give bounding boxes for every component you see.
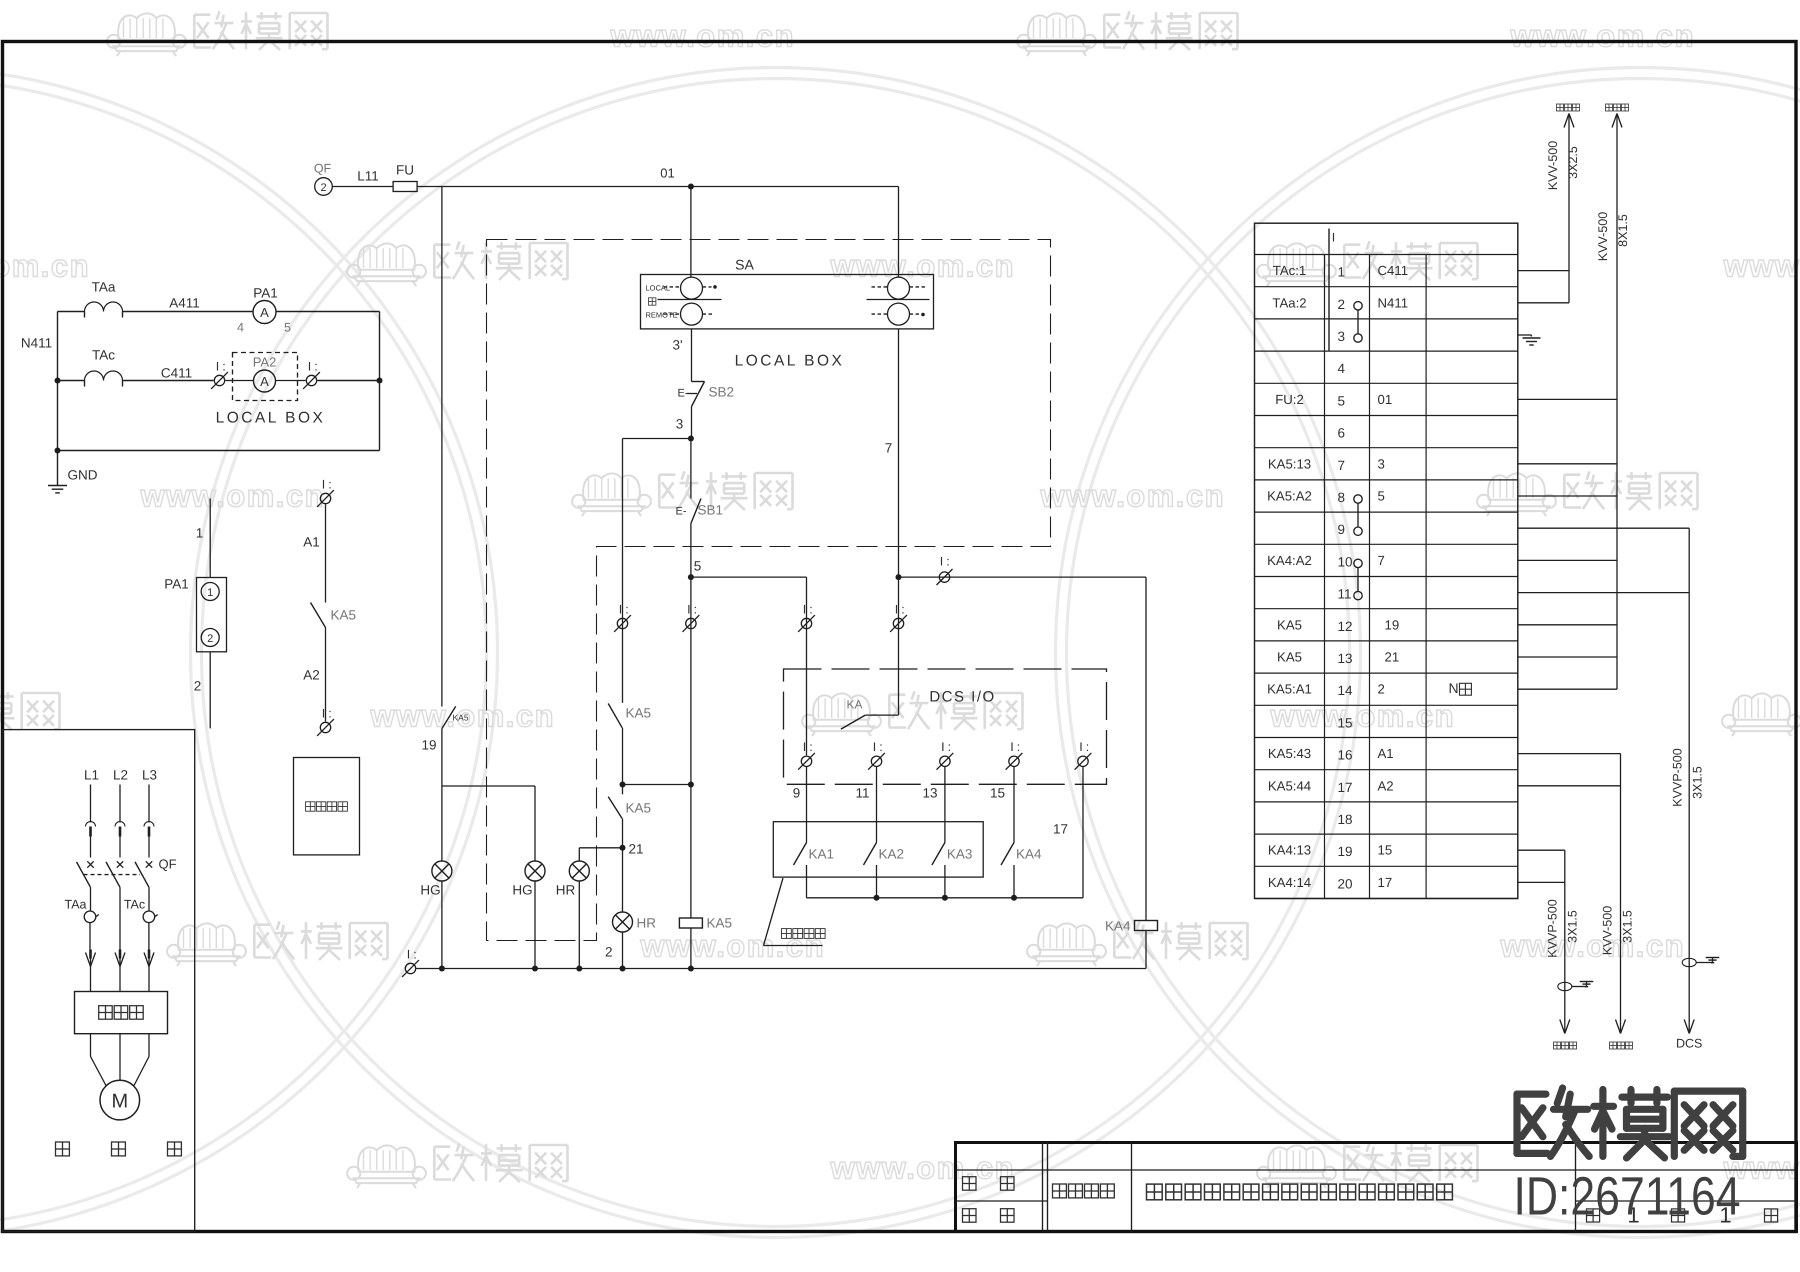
- svg-text:3: 3: [676, 417, 684, 432]
- svg-text:2: 2: [320, 182, 326, 194]
- svg-text:LOCAL BOX: LOCAL BOX: [216, 410, 326, 427]
- svg-text:6: 6: [1338, 426, 1346, 441]
- title block drawing-name: [1053, 1184, 1115, 1198]
- svg-text:I: I: [308, 359, 311, 373]
- svg-text:I: I: [1079, 740, 1082, 754]
- title block frame: [956, 1143, 1797, 1232]
- terminal symbol: [1006, 740, 1023, 770]
- svg-text:8: 8: [1338, 490, 1346, 505]
- svg-text::: :: [328, 477, 331, 491]
- svg-text:QF: QF: [159, 857, 177, 872]
- svg-text::: :: [694, 602, 697, 616]
- wire node 3p: [672, 329, 691, 382]
- svg-text:4: 4: [237, 321, 244, 335]
- svg-text:KA5: KA5: [1277, 617, 1302, 632]
- svg-text::: :: [413, 947, 416, 961]
- svg-text:TAa: TAa: [65, 898, 87, 912]
- terminal symbol: [937, 740, 954, 770]
- svg-text:20: 20: [1338, 876, 1353, 891]
- svg-text:4: 4: [1338, 361, 1346, 376]
- terminal symbol: [317, 706, 334, 736]
- motor M: [100, 1080, 140, 1120]
- svg-text:www.om.cn: www.om.cn: [830, 249, 1016, 284]
- svg-text:KVVP-500: KVVP-500: [1671, 748, 1685, 806]
- svg-text:19: 19: [1385, 617, 1400, 632]
- label LOCAL BOX: [216, 410, 326, 427]
- wire terminal 2: [194, 652, 210, 729]
- rail junctions: [439, 966, 694, 972]
- contact KA5: [311, 603, 357, 628]
- terminal strip table: [1255, 223, 1518, 898]
- CT TAc main: [124, 898, 158, 950]
- svg-text:KA5:43: KA5:43: [1268, 746, 1311, 761]
- wire coil to rail: [690, 928, 692, 969]
- lamp HR1: [556, 861, 590, 898]
- svg-text:www.om.cn: www.om.cn: [1723, 249, 1800, 284]
- svg-text:3: 3: [1378, 456, 1385, 471]
- cable KVV-500 3X1.5 to inverter cabinet: [1518, 754, 1635, 1049]
- svg-text:3X2.5: 3X2.5: [1566, 146, 1580, 179]
- svg-text:TAa:2: TAa:2: [1272, 295, 1306, 310]
- svg-text:KA4:13: KA4:13: [1268, 843, 1311, 858]
- svg-text:19: 19: [421, 738, 436, 753]
- svg-text:15: 15: [1378, 843, 1393, 858]
- svg-text:TAc: TAc: [124, 898, 145, 912]
- svg-text:2: 2: [605, 945, 613, 960]
- contact KA1: [794, 767, 835, 898]
- svg-text:KA5: KA5: [331, 608, 357, 623]
- CT TAa main: [65, 898, 99, 950]
- svg-text:TAc:1: TAc:1: [1273, 263, 1306, 278]
- svg-text:I: I: [1010, 740, 1013, 754]
- svg-text:KA4:14: KA4:14: [1268, 875, 1311, 890]
- svg-text:I: I: [803, 740, 806, 754]
- svg-text:KA4: KA4: [1016, 847, 1042, 862]
- pushbutton SB1: [676, 499, 724, 524]
- svg-text:L1: L1: [84, 768, 99, 783]
- svg-text:KVV-500: KVV-500: [1601, 906, 1615, 955]
- svg-text:PA1: PA1: [253, 286, 278, 301]
- contact KA: [841, 698, 899, 730]
- svg-text:I: I: [619, 602, 622, 616]
- svg-text:KA5: KA5: [1277, 650, 1302, 665]
- labels L1 L2 L3: [84, 768, 157, 783]
- svg-text:www.om.cn: www.om.cn: [140, 479, 326, 514]
- svg-text:17: 17: [1338, 780, 1353, 795]
- svg-text:7: 7: [885, 441, 893, 456]
- svg-text:TAc: TAc: [92, 348, 115, 363]
- svg-text:A2: A2: [1378, 778, 1394, 793]
- wire branch 19: [441, 187, 443, 707]
- ammeter PA1: [237, 286, 291, 335]
- svg-text:18: 18: [1338, 812, 1353, 827]
- label N411: [21, 336, 52, 351]
- relay contacts box: [773, 822, 983, 877]
- svg-text:I: I: [1332, 231, 1335, 245]
- svg-text:KA5: KA5: [626, 706, 652, 721]
- title text: [1147, 1184, 1453, 1200]
- svg-text:15: 15: [1338, 715, 1353, 730]
- svg-text::: :: [222, 359, 225, 373]
- svg-text:N411: N411: [1378, 295, 1409, 310]
- svg-text:QF: QF: [314, 162, 332, 176]
- svg-text:1: 1: [1338, 265, 1346, 280]
- svg-text:I: I: [322, 706, 325, 720]
- cable KVVP-500 3X1.5 to inverter cabinet: [1518, 850, 1594, 1049]
- svg-text:KA5: KA5: [626, 801, 652, 816]
- svg-text:www.om.cn: www.om.cn: [1500, 929, 1686, 964]
- svg-text:1: 1: [196, 526, 204, 541]
- svg-text:11: 11: [1338, 587, 1352, 602]
- svg-text:FU:2: FU:2: [1275, 392, 1304, 407]
- svg-text:KA5:A1: KA5:A1: [1267, 682, 1312, 697]
- svg-text:2: 2: [207, 633, 213, 645]
- label A411: [169, 296, 200, 311]
- svg-text:5: 5: [1338, 393, 1346, 408]
- jumper links: [1354, 302, 1362, 600]
- selector switch SA: [641, 257, 934, 329]
- svg-text::: :: [314, 359, 317, 373]
- wire B top: [899, 576, 1147, 578]
- svg-text:12: 12: [1338, 619, 1353, 634]
- wire mid: [620, 728, 626, 795]
- svg-text:SB2: SB2: [709, 385, 735, 400]
- svg-text:I: I: [940, 555, 943, 569]
- svg-text:13: 13: [1338, 651, 1353, 666]
- svg-text:L3: L3: [142, 768, 157, 783]
- svg-text:11: 11: [855, 786, 869, 801]
- wire 3 branch down: [622, 439, 624, 703]
- svg-text:www.om.cn: www.om.cn: [0, 249, 90, 284]
- svg-text:I: I: [216, 359, 219, 373]
- svg-text:13: 13: [922, 786, 937, 801]
- svg-text:www.om.cn: www.om.cn: [1510, 19, 1696, 54]
- svg-text:3X1.5: 3X1.5: [1621, 910, 1635, 943]
- svg-text::: :: [901, 602, 904, 616]
- meter PA2 dashed box: [233, 353, 298, 401]
- wire terminal 1: [196, 499, 210, 578]
- wire HR1 to rail: [578, 881, 580, 969]
- note from-inverter: [764, 878, 826, 946]
- inverter box: [75, 992, 168, 1034]
- wire N411 loop: [58, 312, 380, 451]
- svg-text:21: 21: [1385, 650, 1400, 665]
- svg-text:KA5:13: KA5:13: [1268, 456, 1311, 471]
- wire KA4 coil to rail: [1145, 931, 1147, 969]
- label main loop: [56, 1142, 182, 1156]
- wire contact bus: [807, 895, 1084, 901]
- svg-text:DCS I/O: DCS I/O: [929, 689, 995, 706]
- svg-text:17: 17: [1053, 822, 1068, 837]
- svg-text:5: 5: [1378, 489, 1385, 504]
- wire to lamps: [442, 729, 535, 861]
- svg-text:I: I: [687, 602, 690, 616]
- svg-text:E-: E-: [678, 388, 689, 400]
- svg-text:GND: GND: [68, 468, 98, 483]
- wire node 2: [605, 932, 623, 969]
- svg-text:HR: HR: [556, 883, 576, 898]
- svg-text:HR: HR: [637, 916, 657, 931]
- svg-text:1: 1: [207, 587, 213, 599]
- svg-text:KA5: KA5: [707, 916, 733, 931]
- wire node 5: [688, 524, 701, 581]
- svg-text:KVV-500: KVV-500: [1596, 212, 1610, 261]
- svg-text:L2: L2: [113, 768, 128, 783]
- wire 3 to KA5 branch: [623, 438, 691, 440]
- ground of shield row3: [1518, 335, 1541, 345]
- svg-text:5: 5: [284, 321, 291, 335]
- wire 01 bus: [417, 166, 898, 190]
- svg-text:KA5:44: KA5:44: [1268, 778, 1311, 793]
- svg-text:DCS: DCS: [1676, 1037, 1702, 1051]
- page numbers: [1587, 1203, 1778, 1228]
- svg-text:C411: C411: [161, 366, 192, 381]
- svg-text:I: I: [803, 602, 806, 616]
- svg-text:9: 9: [793, 786, 801, 801]
- wire to SB1: [690, 439, 692, 499]
- svg-text:E-: E-: [676, 506, 687, 518]
- svg-text:5: 5: [694, 559, 702, 574]
- wire 5 bus: [691, 577, 807, 755]
- svg-text:ID:2671164: ID:2671164: [1514, 1167, 1741, 1227]
- svg-text:KVVP-500: KVVP-500: [1546, 899, 1560, 957]
- wire SA right down: [898, 577, 900, 715]
- contact KA5 19: [421, 706, 468, 752]
- CT TAa: [85, 280, 123, 318]
- svg-text:LOCAL: LOCAL: [646, 284, 671, 293]
- lamp HR1 link: [579, 848, 622, 861]
- svg-text:3': 3': [672, 338, 682, 353]
- table text: [1267, 263, 1471, 891]
- svg-text:www.om.cn: www.om.cn: [830, 1151, 1016, 1186]
- svg-text:SA: SA: [735, 257, 754, 273]
- svg-text::: :: [1017, 740, 1020, 754]
- ground GND: [48, 451, 98, 493]
- lamp HG1: [420, 861, 452, 898]
- wire A1: [303, 505, 325, 603]
- dashed LOCAL BOX region: [487, 240, 1051, 941]
- svg-text:KA: KA: [847, 698, 863, 712]
- main circuit box: [3, 730, 195, 1232]
- svg-text:I: I: [941, 740, 944, 754]
- wires to motor: [91, 1034, 150, 1087]
- lamp HG2: [512, 861, 545, 898]
- svg-text:www.om.cn: www.om.cn: [1270, 699, 1456, 734]
- svg-text:N: N: [1449, 680, 1459, 696]
- svg-text:10: 10: [1338, 554, 1353, 569]
- breaker ref QF-2: [314, 162, 332, 196]
- svg-text:A411: A411: [169, 296, 200, 311]
- phase wire 2 mid: [119, 911, 121, 950]
- svg-text:SB1: SB1: [698, 503, 724, 518]
- svg-text:I: I: [873, 740, 876, 754]
- svg-text:21: 21: [629, 842, 644, 857]
- svg-text:REMOTE: REMOTE: [646, 311, 678, 320]
- svg-text:A: A: [260, 374, 269, 389]
- bus label I: [1329, 229, 1335, 351]
- wire node 21: [620, 819, 644, 913]
- terminal symbol: [683, 602, 700, 632]
- svg-text:9: 9: [1338, 522, 1346, 537]
- svg-text:7: 7: [1378, 553, 1385, 568]
- svg-text:17: 17: [1378, 875, 1393, 890]
- svg-text:3: 3: [1338, 329, 1346, 344]
- lamp HR2: [613, 912, 657, 932]
- wire 5 down: [690, 577, 692, 918]
- svg-text:KVV-500: KVV-500: [1546, 141, 1560, 190]
- svg-text::: :: [328, 706, 331, 720]
- wire C411: [58, 366, 214, 381]
- svg-text:PA1: PA1: [164, 577, 189, 592]
- svg-text::: :: [946, 555, 949, 569]
- wires lamps to rail: [442, 881, 535, 969]
- svg-text:KA2: KA2: [879, 847, 905, 862]
- svg-text::: :: [809, 602, 812, 616]
- svg-text:01: 01: [1378, 392, 1393, 407]
- contact KA4: [1001, 767, 1042, 898]
- svg-text:I: I: [322, 477, 325, 491]
- terminal symbol: [303, 359, 320, 389]
- svg-text:I: I: [895, 602, 898, 616]
- ammeter PA2: [226, 370, 306, 392]
- contact KA5 b: [608, 797, 651, 819]
- terminal symbol: [798, 602, 815, 632]
- svg-text:3X1.5: 3X1.5: [1691, 766, 1705, 799]
- cable KVVP-500 3X1.5 to DCS: [1518, 528, 1720, 1050]
- svg-text:01: 01: [660, 166, 674, 181]
- box to-inverter-cabinet: [294, 758, 360, 855]
- svg-text:www.om.cn: www.om.cn: [1040, 479, 1226, 514]
- labels 9 11 13 15 17: [793, 786, 1068, 837]
- svg-text:L11: L11: [357, 169, 379, 184]
- svg-text:LOCAL BOX: LOCAL BOX: [735, 353, 845, 370]
- cable KVV-500 8X1.5 to local box: [1518, 104, 1630, 689]
- watermark omw id: [1514, 1088, 1743, 1227]
- wire B right leg: [1145, 577, 1147, 920]
- terminal symbol: [798, 740, 815, 770]
- svg-text::: :: [809, 740, 812, 754]
- terminal symbol: [211, 359, 228, 389]
- svg-text:15: 15: [990, 786, 1005, 801]
- phase wires: [86, 785, 155, 858]
- svg-text::: :: [625, 602, 628, 616]
- svg-text:2: 2: [1378, 682, 1385, 697]
- wire node 7: [885, 329, 902, 580]
- svg-text::: :: [1086, 740, 1089, 754]
- fuse FU: [393, 163, 417, 192]
- svg-text:KA4: KA4: [1105, 919, 1131, 934]
- cable KVV-500 3X2.5 to local box: [1518, 104, 1580, 303]
- svg-text:M: M: [111, 1091, 128, 1113]
- svg-text:N411: N411: [21, 336, 52, 351]
- terminal symbol: [317, 477, 334, 507]
- svg-text:KA5: KA5: [453, 713, 469, 723]
- svg-text:PA2: PA2: [253, 355, 277, 370]
- pushbutton SB2: [678, 382, 735, 407]
- CT TAc: [85, 348, 123, 387]
- wire A2: [303, 628, 325, 722]
- terminal symbol: [868, 740, 885, 770]
- svg-text:TAa: TAa: [92, 280, 116, 295]
- label LOCAL BOX 2: [735, 353, 845, 370]
- arrows into inverter: [86, 950, 155, 992]
- wire L11: [332, 169, 393, 187]
- terminal block PA1: [164, 577, 226, 652]
- svg-text:KA3: KA3: [947, 847, 973, 862]
- svg-text:A: A: [260, 305, 269, 320]
- contact KA3: [932, 767, 973, 898]
- relay coil KA4: [1105, 919, 1158, 934]
- wire to DCS 17: [1082, 767, 1084, 898]
- svg-text:C411: C411: [1378, 263, 1409, 278]
- svg-text:HG: HG: [420, 883, 440, 898]
- svg-text:HG: HG: [512, 883, 532, 898]
- wire to right: [318, 380, 380, 382]
- svg-text:2: 2: [194, 679, 202, 694]
- wire node 3: [676, 407, 694, 442]
- svg-text:A2: A2: [303, 668, 320, 683]
- svg-text:7: 7: [1338, 458, 1346, 473]
- svg-text:KA1: KA1: [809, 847, 835, 862]
- svg-text:16: 16: [1338, 748, 1353, 763]
- title block text proof/check: [963, 1177, 1015, 1223]
- svg-text:19: 19: [1338, 844, 1353, 859]
- terminal symbol on wire: [937, 555, 953, 586]
- svg-text:14: 14: [1338, 683, 1354, 698]
- wire bottom rail 2: [416, 968, 1147, 970]
- svg-text:A1: A1: [1378, 746, 1394, 761]
- terminal symbol: [890, 602, 907, 632]
- svg-text:3X1.5: 3X1.5: [1566, 910, 1580, 943]
- svg-text::: :: [879, 740, 882, 754]
- contact KA2: [864, 767, 905, 898]
- wire cross link: [623, 782, 694, 788]
- dashed DCS IO box: [784, 669, 1107, 784]
- contact KA5 a: [608, 704, 651, 728]
- relay coil KA5: [679, 916, 732, 931]
- breaker QF: [77, 857, 177, 911]
- terminal symbol: [614, 602, 631, 632]
- svg-text:8X1.5: 8X1.5: [1616, 214, 1630, 247]
- svg-text:KA5:A2: KA5:A2: [1267, 489, 1312, 504]
- svg-text:A1: A1: [303, 535, 320, 550]
- terminal symbol: [1075, 740, 1092, 770]
- terminal symbol rail: [402, 947, 419, 977]
- svg-text:FU: FU: [396, 163, 414, 178]
- wire SA feeds: [691, 187, 899, 278]
- node junctions: [55, 378, 383, 454]
- svg-text:2: 2: [1338, 297, 1346, 312]
- svg-text::: :: [948, 740, 951, 754]
- svg-text:I: I: [407, 947, 410, 961]
- svg-text:KA4:A2: KA4:A2: [1267, 553, 1312, 568]
- svg-text:www.om.cn: www.om.cn: [610, 19, 796, 54]
